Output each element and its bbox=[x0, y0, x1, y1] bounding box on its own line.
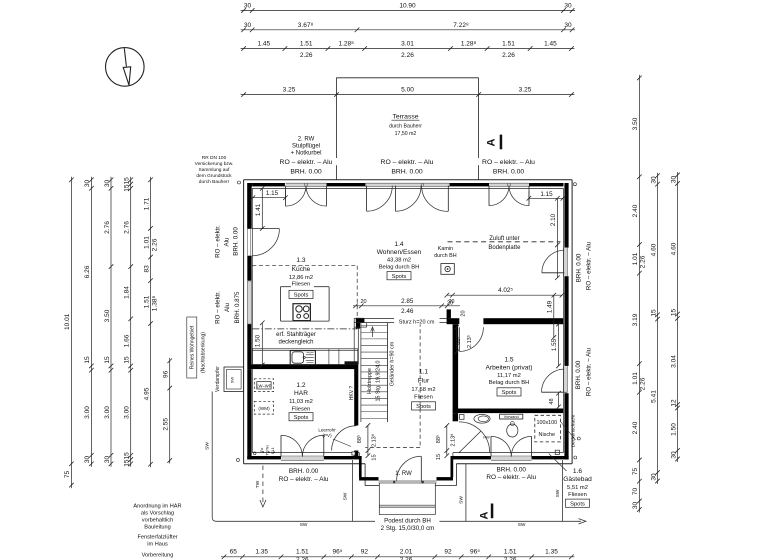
svg-text:15 Stg. 19,9/24,0: 15 Stg. 19,9/24,0 bbox=[375, 360, 381, 401]
svg-text:BRH. 0.00: BRH. 0.00 bbox=[290, 168, 322, 175]
dim chain bottom bbox=[221, 556, 574, 558]
dim chain left F (96/2.55) bbox=[169, 358, 171, 464]
svg-text:2.55: 2.55 bbox=[163, 418, 170, 431]
svg-text:2.13⁸: 2.13⁸ bbox=[449, 433, 456, 446]
door kitchen left wall bbox=[247, 229, 249, 256]
SW pipe main bbox=[212, 392, 375, 522]
svg-text:1.35: 1.35 bbox=[545, 549, 558, 556]
interior wall HAR/stair bbox=[353, 323, 355, 365]
LW-WP unit bbox=[254, 379, 273, 392]
svg-text:dem Grundstück: dem Grundstück bbox=[196, 173, 232, 179]
svg-text:2.26: 2.26 bbox=[640, 377, 647, 390]
left wall frame bar 2 bbox=[247, 256, 251, 281]
svg-text:1.55: 1.55 bbox=[551, 338, 558, 351]
svg-text:Fliesen: Fliesen bbox=[292, 406, 311, 412]
window Gaestebad bottom wall (2-leaf) bbox=[491, 456, 531, 460]
svg-text:1.1: 1.1 bbox=[419, 369, 428, 376]
svg-text:BRH. 0.00: BRH. 0.00 bbox=[391, 168, 423, 175]
door HAR bbox=[332, 426, 357, 451]
WM unit dashed bbox=[254, 401, 273, 414]
svg-text:6.26: 6.26 bbox=[84, 265, 91, 278]
svg-text:SW: SW bbox=[555, 489, 561, 497]
dim 1.49 right bbox=[553, 295, 555, 337]
svg-text:TW: TW bbox=[255, 480, 261, 488]
svg-text:2.26: 2.26 bbox=[300, 52, 313, 59]
svg-text:Spots: Spots bbox=[502, 390, 517, 396]
entrance threshold bbox=[379, 481, 437, 483]
svg-text:15: 15 bbox=[436, 454, 442, 460]
svg-text:3.25: 3.25 bbox=[519, 87, 532, 94]
svg-text:SW: SW bbox=[300, 522, 308, 528]
svg-text:2.26: 2.26 bbox=[152, 238, 159, 251]
interior wall Arbeiten/Gaestebad bbox=[453, 409, 564, 414]
svg-text:30: 30 bbox=[244, 22, 252, 29]
svg-text:SW: SW bbox=[205, 442, 211, 450]
svg-text:Terrasse: Terrasse bbox=[392, 114, 418, 121]
svg-text:1.5: 1.5 bbox=[504, 357, 513, 364]
svg-text:11,17 m2: 11,17 m2 bbox=[497, 373, 521, 379]
svg-text:BRH. 0.00: BRH. 0.00 bbox=[496, 466, 526, 473]
dim chain left A (10.01/75) bbox=[70, 177, 72, 488]
svg-text:2.46: 2.46 bbox=[401, 308, 414, 315]
stairs (Holztreppe) bbox=[387, 323, 389, 422]
dim 4.02 Wohnen bbox=[447, 294, 562, 296]
svg-text:durch BH: durch BH bbox=[434, 253, 457, 259]
svg-text:3.19: 3.19 bbox=[632, 313, 639, 326]
dim 1.50 left wall pier bbox=[261, 323, 263, 365]
svg-text:1.45: 1.45 bbox=[544, 41, 557, 48]
svg-text:3.67⁸: 3.67⁸ bbox=[298, 22, 314, 29]
svg-text:LW–WP: LW–WP bbox=[256, 383, 271, 388]
svg-text:im Haus: im Haus bbox=[147, 542, 168, 548]
downpipe top-left bbox=[238, 181, 241, 184]
door terrace right (Wohnen) bbox=[542, 272, 568, 274]
dim chain left C bbox=[110, 177, 112, 467]
svg-text:1.45: 1.45 bbox=[257, 41, 270, 48]
svg-text:12,86 m2: 12,86 m2 bbox=[289, 275, 313, 281]
svg-text:2.26: 2.26 bbox=[504, 556, 517, 560]
svg-text:7.22⁸: 7.22⁸ bbox=[453, 22, 469, 29]
svg-text:3.00: 3.00 bbox=[104, 406, 111, 419]
svg-text:1.51: 1.51 bbox=[300, 41, 313, 48]
svg-text:11,03 m2: 11,03 m2 bbox=[289, 399, 313, 405]
svg-text:vorbehaltlich: vorbehaltlich bbox=[142, 518, 173, 524]
svg-text:88⁵: 88⁵ bbox=[435, 435, 442, 443]
svg-text:1.3: 1.3 bbox=[296, 257, 305, 264]
steel beam dash-dot line bbox=[252, 328, 357, 330]
svg-text:30: 30 bbox=[650, 176, 657, 184]
svg-text:2.10: 2.10 bbox=[550, 213, 557, 226]
svg-text:1.41: 1.41 bbox=[255, 203, 262, 216]
section marker A bottom bbox=[491, 504, 494, 519]
svg-text:20: 20 bbox=[461, 310, 467, 316]
svg-text:2.13⁵: 2.13⁵ bbox=[466, 335, 473, 348]
svg-text:88⁵: 88⁵ bbox=[356, 435, 363, 443]
top wall window frame bar C bbox=[450, 183, 490, 186]
svg-text:96⁵: 96⁵ bbox=[470, 549, 480, 556]
dim chain top row1 (30/10.90/30) bbox=[241, 10, 575, 12]
svg-text:20: 20 bbox=[448, 299, 454, 305]
svg-text:Versickerung bzw.: Versickerung bzw. bbox=[195, 161, 234, 167]
svg-text:RO – elektr. – Alu: RO – elektr. – Alu bbox=[486, 474, 536, 481]
svg-text:durch Bauherr: durch Bauherr bbox=[389, 124, 422, 130]
svg-text:HKV ?: HKV ? bbox=[349, 386, 355, 401]
dim 88/2.13 entrance left bbox=[367, 426, 369, 456]
top wall window frame bar A bbox=[252, 183, 285, 186]
svg-text:Fliesen: Fliesen bbox=[414, 395, 433, 401]
dim chain left B bbox=[90, 177, 92, 467]
stair lintel (Sturz) bbox=[354, 317, 448, 319]
svg-text:RO – elektr.: RO – elektr. bbox=[215, 291, 222, 324]
bottom wall frame bar right2 bbox=[532, 456, 569, 459]
window label group 2 bbox=[376, 158, 438, 165]
svg-text:5.00: 5.00 bbox=[401, 87, 414, 94]
svg-text:HW: HW bbox=[483, 436, 490, 440]
svg-text:EL1: EL1 bbox=[271, 447, 275, 453]
svg-text:Holztreppe: Holztreppe bbox=[367, 368, 373, 394]
svg-text:2.85: 2.85 bbox=[401, 298, 414, 305]
svg-text:3.00: 3.00 bbox=[124, 406, 131, 419]
label Reines Wohngebiet bbox=[187, 317, 197, 378]
dim 2.85/2.46 passage bbox=[353, 305, 460, 307]
svg-text:1.15: 1.15 bbox=[540, 191, 553, 198]
right wall frame bar 3 (48) bbox=[564, 393, 568, 459]
svg-text:HAR: HAR bbox=[294, 390, 308, 397]
svg-text:Geländer h=90 cm: Geländer h=90 cm bbox=[390, 341, 396, 386]
svg-text:1.01: 1.01 bbox=[143, 236, 150, 249]
kitchen sink bbox=[290, 351, 315, 365]
svg-text:Fensterfalzlüfter: Fensterfalzlüfter bbox=[137, 535, 177, 541]
bottom wall frame bar mid bbox=[324, 456, 362, 459]
svg-text:2.26: 2.26 bbox=[400, 556, 413, 560]
svg-text:SW: SW bbox=[458, 496, 464, 504]
svg-text:2.13⁸: 2.13⁸ bbox=[370, 434, 377, 447]
svg-text:1515: 1515 bbox=[124, 177, 131, 192]
svg-text:2 Stg. 15,0/30,0 cm: 2 Stg. 15,0/30,0 cm bbox=[381, 525, 435, 532]
svg-text:20: 20 bbox=[360, 299, 366, 305]
dim chain left D bbox=[130, 177, 132, 467]
svg-text:BRH. 0.00: BRH. 0.00 bbox=[289, 468, 319, 475]
svg-text:Spots: Spots bbox=[392, 274, 407, 280]
svg-text:Deckenschacht: Deckenschacht bbox=[571, 414, 577, 447]
Zuluft dashed line bbox=[448, 241, 561, 243]
downpipe right Nische bbox=[577, 437, 580, 440]
svg-text:Flur: Flur bbox=[418, 378, 430, 385]
svg-text:Arbeiten (privat): Arbeiten (privat) bbox=[486, 365, 533, 372]
svg-text:Reines Wohngebiet: Reines Wohngebiet bbox=[190, 325, 196, 369]
svg-text:2.76: 2.76 bbox=[124, 221, 131, 234]
svg-text:30: 30 bbox=[104, 456, 111, 464]
svg-text:15: 15 bbox=[124, 356, 131, 364]
svg-text:2.40: 2.40 bbox=[632, 204, 639, 217]
downpipe bottom-left bbox=[236, 458, 239, 461]
svg-text:1.50: 1.50 bbox=[670, 423, 677, 436]
svg-text:Vorwand: Vorwand bbox=[504, 415, 519, 419]
dim 1.55 Arbeiten bbox=[558, 324, 560, 366]
left wall frame bar 3 bbox=[247, 324, 251, 365]
svg-text:75: 75 bbox=[64, 471, 71, 479]
SW branch pipes bbox=[351, 460, 353, 521]
svg-text:1.38⁸: 1.38⁸ bbox=[152, 296, 159, 312]
dim chain top row3 (window widths) bbox=[241, 48, 575, 50]
svg-text:erf. Stahlträger: erf. Stahlträger bbox=[276, 332, 316, 338]
svg-text:SW: SW bbox=[230, 377, 235, 384]
window HAR bottom wall (2-leaf) bbox=[281, 456, 323, 460]
door Flur-Gaestebad bbox=[459, 422, 490, 453]
dim chain top row2 (30/3.67/7.22/30) bbox=[241, 29, 575, 31]
svg-text:Alu: Alu bbox=[224, 237, 231, 247]
exterior wall outer boundary bbox=[244, 179, 572, 181]
svg-text:1.4: 1.4 bbox=[394, 241, 403, 248]
svg-text:70: 70 bbox=[632, 488, 639, 496]
svg-text:96: 96 bbox=[163, 370, 170, 378]
svg-text:1.6: 1.6 bbox=[573, 468, 582, 475]
svg-text:100x100: 100x100 bbox=[536, 420, 557, 426]
svg-text:2.26: 2.26 bbox=[640, 255, 647, 268]
svg-text:83: 83 bbox=[143, 265, 150, 273]
entrance door (1.RW) bbox=[420, 456, 422, 481]
svg-text:15: 15 bbox=[372, 454, 378, 460]
svg-text:Verdampfer: Verdampfer bbox=[215, 366, 221, 392]
downpipe bottom-right bbox=[574, 456, 577, 459]
svg-text:1.51: 1.51 bbox=[502, 41, 515, 48]
svg-text:Leerrohr: Leerrohr bbox=[318, 428, 336, 433]
svg-text:92: 92 bbox=[361, 549, 369, 556]
svg-text:deckengleich: deckengleich bbox=[278, 340, 313, 346]
svg-text:5,51 m2: 5,51 m2 bbox=[567, 485, 588, 491]
svg-text:Anordnung im HAR: Anordnung im HAR bbox=[133, 504, 181, 510]
svg-text:2. RW: 2. RW bbox=[298, 136, 315, 142]
svg-text:Spots: Spots bbox=[416, 404, 431, 410]
svg-text:65: 65 bbox=[230, 549, 238, 556]
dim chain right I bbox=[677, 172, 679, 462]
svg-text:BRH. 0.00: BRH. 0.00 bbox=[233, 227, 240, 256]
svg-text:3.50: 3.50 bbox=[104, 309, 111, 322]
dim 1.41 left wall bbox=[261, 188, 263, 228]
svg-text:RO – elektr.: RO – elektr. bbox=[215, 225, 222, 258]
svg-text:15: 15 bbox=[650, 309, 657, 317]
window W2 top wall (3-leaf terrace door 3.01m) bbox=[366, 183, 449, 186]
exterior wall inner faces bbox=[252, 187, 563, 189]
interior wall Kueche/HAR bbox=[247, 365, 357, 370]
dim chain right G bbox=[638, 75, 640, 513]
svg-text:+ Notkurbel: + Notkurbel bbox=[291, 150, 322, 156]
window W3 top wall (2-leaf, french) bbox=[489, 183, 528, 186]
svg-text:1.50: 1.50 bbox=[255, 334, 262, 347]
TW pipe dashed arrow bbox=[262, 466, 264, 506]
Gaestebad left wall stub bbox=[453, 413, 459, 421]
window W1 top wall (2-leaf, french) bbox=[286, 183, 326, 186]
svg-text:17,58 m2: 17,58 m2 bbox=[411, 387, 435, 393]
top wall window frame bar D bbox=[529, 183, 564, 186]
svg-text:30: 30 bbox=[670, 176, 677, 184]
svg-text:12: 12 bbox=[670, 399, 677, 407]
svg-text:Sammlung auf: Sammlung auf bbox=[199, 167, 231, 173]
window label group 3 bbox=[478, 158, 540, 165]
svg-text:1.15: 1.15 bbox=[266, 190, 279, 197]
svg-text:3.04: 3.04 bbox=[670, 355, 677, 368]
svg-text:Wohnen/Essen: Wohnen/Essen bbox=[377, 249, 422, 256]
bottom wall frame bar left bbox=[247, 456, 281, 459]
svg-text:Zuluft unter: Zuluft unter bbox=[489, 236, 519, 242]
svg-text:30: 30 bbox=[650, 473, 657, 481]
terrace outline bbox=[336, 77, 478, 79]
svg-text:(Nachtabsenkung): (Nachtabsenkung) bbox=[201, 332, 207, 373]
top-left corner frame bbox=[247, 183, 252, 186]
svg-text:Küche: Küche bbox=[292, 266, 311, 273]
interior wall Wohnen/Arbeiten bbox=[447, 318, 460, 324]
svg-text:BRH. 0.00: BRH. 0.00 bbox=[493, 168, 525, 175]
dim 88/2.13 entrance right bbox=[446, 426, 448, 456]
svg-text:48: 48 bbox=[549, 398, 555, 404]
kitchen counter bbox=[252, 349, 357, 365]
svg-text:1.28⁸: 1.28⁸ bbox=[338, 41, 354, 48]
kitchen island bbox=[281, 286, 292, 288]
svg-text:1.84: 1.84 bbox=[124, 286, 131, 299]
svg-text:BRH. 0.00: BRH. 0.00 bbox=[576, 253, 583, 282]
svg-text:1.51: 1.51 bbox=[143, 295, 150, 308]
porch (Podest) outline bbox=[378, 483, 380, 515]
top wall window frame bar B bbox=[327, 183, 366, 186]
svg-text:4.60: 4.60 bbox=[650, 243, 657, 256]
svg-text:4.02⁵: 4.02⁵ bbox=[498, 287, 513, 294]
svg-text:Sturz h=20 cm: Sturz h=20 cm bbox=[399, 320, 435, 326]
left wall frame bar 4 (HAR) bbox=[247, 369, 251, 459]
svg-text:1.51: 1.51 bbox=[296, 549, 309, 556]
bottom wall frame bar right1 bbox=[453, 456, 491, 459]
svg-text:30: 30 bbox=[564, 22, 572, 29]
door terrace right (Arbeiten) bbox=[542, 391, 568, 393]
svg-text:75: 75 bbox=[632, 468, 639, 476]
svg-text:3.50: 3.50 bbox=[632, 117, 639, 130]
svg-text:Alu: Alu bbox=[224, 302, 231, 312]
svg-text:RO – elektr. – Alu: RO – elektr. – Alu bbox=[586, 347, 593, 396]
svg-text:17,50 m2: 17,50 m2 bbox=[395, 131, 417, 137]
svg-text:2.26: 2.26 bbox=[296, 556, 309, 560]
svg-text:SW: SW bbox=[518, 522, 526, 528]
svg-text:A: A bbox=[486, 138, 498, 146]
dim 1.15 top-right bbox=[529, 197, 563, 199]
svg-text:4.60: 4.60 bbox=[670, 242, 677, 255]
svg-text:Bodenplatte: Bodenplatte bbox=[488, 245, 521, 251]
svg-text:2.26: 2.26 bbox=[502, 52, 515, 59]
svg-text:10.01: 10.01 bbox=[64, 313, 71, 330]
svg-text:RR DN 100: RR DN 100 bbox=[202, 155, 227, 161]
svg-text:30: 30 bbox=[84, 456, 91, 464]
svg-text:30: 30 bbox=[244, 3, 252, 10]
svg-text:RO – elektr. – Alu: RO – elektr. – Alu bbox=[586, 241, 593, 290]
svg-text:92: 92 bbox=[444, 549, 452, 556]
svg-text:A: A bbox=[479, 511, 491, 519]
svg-text:1.66: 1.66 bbox=[124, 334, 131, 347]
svg-text:1.71: 1.71 bbox=[143, 197, 150, 210]
svg-text:15: 15 bbox=[104, 356, 111, 364]
svg-text:4.95: 4.95 bbox=[143, 387, 150, 400]
svg-text:BRH. 0.875: BRH. 0.875 bbox=[234, 291, 241, 324]
right wall door sills bbox=[564, 248, 567, 276]
svg-text:RO – elektr. – Alu: RO – elektr. – Alu bbox=[280, 159, 333, 166]
svg-text:2.26: 2.26 bbox=[401, 52, 414, 59]
svg-text:88⁵: 88⁵ bbox=[455, 336, 462, 344]
stair wall top stub black L bbox=[356, 318, 365, 323]
svg-text:Spots: Spots bbox=[570, 501, 585, 507]
svg-text:Spots: Spots bbox=[294, 293, 309, 299]
svg-text:Spots: Spots bbox=[294, 415, 309, 421]
dim 1.15 top-left bbox=[253, 197, 286, 199]
svg-text:2.01: 2.01 bbox=[400, 549, 413, 556]
svg-text:Podest durch BH: Podest durch BH bbox=[384, 518, 431, 525]
leader Gaestebad bbox=[549, 454, 567, 471]
door Flur-Arbeiten bbox=[458, 327, 460, 351]
svg-text:1.51: 1.51 bbox=[504, 549, 517, 556]
svg-text:als Vorschlag: als Vorschlag bbox=[141, 511, 174, 517]
svg-text:Belag durch BH: Belag durch BH bbox=[379, 265, 420, 271]
svg-text:Bauleitung: Bauleitung bbox=[144, 525, 170, 531]
svg-text:1.49: 1.49 bbox=[546, 300, 553, 313]
svg-text:1.28⁸: 1.28⁸ bbox=[461, 41, 477, 48]
washbasin with Vorwand bbox=[500, 414, 523, 419]
svg-text:SW: SW bbox=[343, 492, 349, 500]
dim chain left E bbox=[150, 177, 152, 467]
svg-text:30: 30 bbox=[84, 180, 91, 188]
entrance recess walls black bbox=[359, 456, 361, 481]
svg-text:Vorbereitung: Vorbereitung bbox=[142, 553, 174, 559]
interior wall Flur/Arbeiten vertical bbox=[453, 324, 459, 409]
svg-text:30: 30 bbox=[670, 451, 677, 459]
svg-text:30: 30 bbox=[632, 502, 639, 510]
svg-text:1.01: 1.01 bbox=[632, 252, 639, 265]
svg-text:RO – elektr. – Alu: RO – elektr. – Alu bbox=[482, 159, 535, 166]
window left wall (1.50, BRH 0.875) bbox=[248, 281, 252, 323]
svg-text:15: 15 bbox=[84, 356, 91, 364]
svg-text:2.40: 2.40 bbox=[632, 421, 639, 434]
dim chain right H bbox=[657, 173, 659, 484]
svg-text:Stulpflügel: Stulpflügel bbox=[292, 143, 320, 149]
svg-text:Gästebad: Gästebad bbox=[563, 476, 592, 483]
svg-text:15: 15 bbox=[670, 309, 677, 317]
north arrow compass bbox=[106, 48, 145, 87]
Flur dashed boundary bbox=[419, 323, 421, 448]
svg-text:10.90: 10.90 bbox=[399, 3, 416, 10]
svg-text:Nische: Nische bbox=[539, 432, 555, 438]
left wall frame bar (1.41 window) bbox=[247, 186, 251, 229]
dim 48 Arbeiten bbox=[558, 393, 560, 407]
svg-text:3.01: 3.01 bbox=[401, 41, 414, 48]
svg-text:BRH. 0.00: BRH. 0.00 bbox=[575, 360, 582, 389]
downpipe top-right bbox=[573, 183, 576, 186]
svg-text:Kamin: Kamin bbox=[438, 246, 453, 252]
svg-text:RO – elektr. – Alu: RO – elektr. – Alu bbox=[381, 159, 434, 166]
svg-text:durch Bauherr: durch Bauherr bbox=[199, 179, 230, 185]
svg-text:30: 30 bbox=[564, 3, 572, 10]
svg-text:1. RW: 1. RW bbox=[395, 471, 412, 477]
svg-text:(WM): (WM) bbox=[258, 406, 270, 411]
dim 88/2.13 Arbeiten door bbox=[456, 327, 458, 352]
svg-text:2.76: 2.76 bbox=[104, 221, 111, 234]
svg-text:1.01: 1.01 bbox=[632, 372, 639, 385]
svg-text:1515: 1515 bbox=[124, 452, 131, 467]
svg-text:3.00: 3.00 bbox=[84, 406, 91, 419]
svg-text:RO – elektr. – Alu: RO – elektr. – Alu bbox=[279, 476, 329, 483]
dim chain terrace row (3.25/5.00/3.25) bbox=[241, 94, 575, 96]
section marker A top bbox=[500, 135, 503, 150]
svg-text:(PV): (PV) bbox=[322, 433, 332, 438]
svg-text:30: 30 bbox=[104, 180, 111, 188]
right wall frame bar 2 bbox=[564, 276, 568, 366]
svg-text:Belag durch BH: Belag durch BH bbox=[489, 380, 530, 386]
svg-text:Fliesen: Fliesen bbox=[292, 282, 311, 288]
WC toilet bbox=[474, 414, 490, 423]
